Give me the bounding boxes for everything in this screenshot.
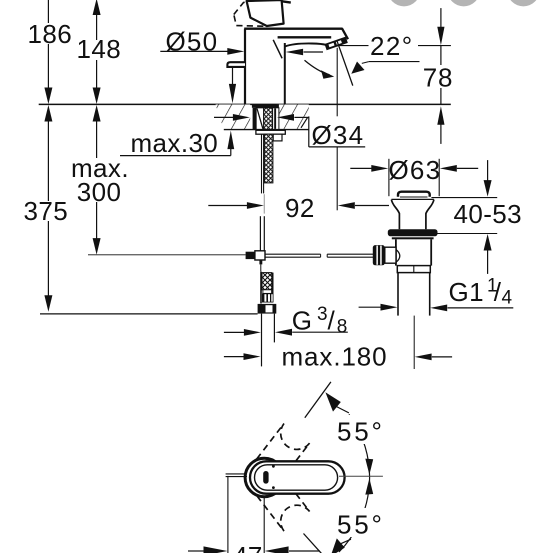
pull rod (plan) (226, 473, 247, 475)
countertop surface line (39, 103, 451, 105)
dim 186 line (47, 0, 49, 89)
svg-text:47: 47 (233, 541, 263, 553)
dim max30 leader (120, 155, 231, 157)
threaded rod below washer (264, 134, 273, 183)
drain flange and flare (391, 198, 434, 200)
dim 375 label (22, 201, 68, 221)
clamp wedge box (256, 108, 264, 130)
spout underside curve (285, 43, 326, 46)
label 55 upper (336, 415, 385, 444)
svg-text:92: 92 (285, 193, 315, 223)
spout inner slant line (273, 40, 282, 59)
svg-text:3: 3 (317, 304, 328, 325)
dim 22 aerator line (338, 45, 369, 47)
dim 92 line (208, 205, 247, 207)
drain centerline (413, 316, 415, 369)
dim 47 line (188, 550, 204, 552)
dim 22 leader (369, 61, 420, 63)
dim 78 line lower (437, 106, 444, 125)
radius ray upper (305, 382, 331, 418)
countertop underside line (224, 129, 309, 131)
dim max180 line right (415, 354, 432, 361)
dim max180 line left (224, 356, 246, 358)
centerline (plan) (339, 475, 383, 477)
lever handle (solid) (247, 0, 284, 26)
svg-text:Ø63: Ø63 (389, 155, 442, 185)
handle rotated -55 (dashed) (250, 468, 309, 532)
svg-text:max.180: max.180 (282, 342, 388, 372)
svg-text:4: 4 (502, 287, 513, 308)
shank right strip (273, 108, 279, 130)
aerator (tilted) (324, 37, 347, 51)
mounting washer (256, 130, 285, 134)
angle reference vertical (spout axis) (336, 48, 338, 117)
dim Ø63 line (350, 167, 377, 169)
arc center ticks (365, 459, 373, 475)
G3/8 nut (258, 304, 277, 314)
flow line with left arrow (304, 51, 324, 53)
handle rotated +55 (dashed) (250, 424, 309, 488)
hose end tube (261, 314, 263, 367)
carousel dot 1 (388, 0, 420, 6)
hose right bar (272, 273, 274, 303)
supply tube lower segment (259, 216, 261, 250)
mounting nut tab (273, 134, 282, 141)
dim 148 label (75, 40, 120, 60)
svg-text:Ø34: Ø34 (312, 120, 365, 150)
handle slot (black) (263, 471, 268, 484)
svg-text:300: 300 (77, 177, 122, 207)
threaded shank (cross-hatched) (264, 108, 273, 130)
pull-rod down arrow (229, 84, 236, 104)
faucet body top edge (244, 28, 342, 30)
handle outline (plan) (250, 461, 345, 493)
dim Ø50 leader (160, 50, 228, 52)
hose white band (263, 290, 272, 294)
supply tube (261, 134, 263, 193)
spout right slant (342, 28, 348, 39)
dim Ø34 box (308, 116, 310, 146)
dim max300 label (70, 158, 132, 202)
dim 47 ext lines (227, 476, 229, 553)
dim 186 label (26, 23, 73, 44)
faucet right wall (284, 43, 286, 104)
svg-text:375: 375 (24, 196, 69, 226)
dim G1-1/4 line (359, 306, 381, 308)
svg-text:G1: G1 (449, 277, 484, 307)
knob connector (385, 247, 396, 263)
dim 78 line (440, 46, 442, 105)
dim max300 line (93, 105, 101, 122)
handle dots (272, 465, 275, 468)
svg-text:40-53: 40-53 (454, 199, 523, 229)
55 deg dimension arc (339, 414, 370, 552)
dim 40-53 top (487, 160, 489, 180)
Ø63 extension lines (388, 159, 390, 196)
drain plug cap (398, 192, 430, 197)
stream angle slant line (337, 40, 353, 85)
svg-text:max.30: max.30 (131, 128, 219, 158)
carousel dot 3 (507, 0, 539, 6)
svg-text:Ø50: Ø50 (166, 27, 219, 57)
hose braid (cross-hatched) (262, 273, 272, 290)
linkage block (black) (246, 252, 255, 259)
extra hatch stub (301, 117, 308, 127)
svg-text:148: 148 (77, 34, 122, 64)
base gasket (252, 104, 279, 107)
linkage stem (259, 260, 262, 264)
rod level reference line (88, 254, 246, 256)
pop-up rod (horizontal) (265, 253, 321, 255)
drain coupling (397, 266, 430, 273)
radius ray lower (304, 534, 322, 553)
hose crimp (striped) (262, 293, 273, 302)
handle inner line (plan) (255, 465, 338, 490)
arc arrowhead lower (331, 538, 345, 553)
label 55 lower (336, 508, 385, 537)
lever handle (dashed open position) (234, 0, 277, 26)
countertop hatching (215, 104, 251, 129)
dim 78 label (422, 65, 457, 88)
drain knob (knurled) (373, 245, 385, 265)
dim 375 line (44, 105, 52, 122)
svg-text:/: / (328, 306, 336, 336)
hose left edge (260, 272, 262, 304)
svg-text:G: G (292, 306, 312, 336)
svg-text:186: 186 (28, 19, 73, 49)
flow swing arc (305, 60, 330, 75)
dim 78 line upper (440, 8, 442, 28)
dim G3/8 line (224, 331, 247, 333)
ref line hose-end (375) (40, 313, 258, 315)
svg-text:8: 8 (337, 316, 348, 337)
dim 148 line (93, 0, 101, 15)
linkage guide square (255, 251, 265, 260)
drain tailpipe (397, 273, 399, 316)
drain gasket (black ring) (388, 229, 438, 236)
shank left wall bar (253, 108, 257, 130)
carousel dot 2 (448, 0, 480, 6)
arc arrowhead upper (325, 392, 340, 411)
dim max180 label (280, 348, 389, 367)
dim Ø34 arrows (214, 116, 233, 118)
drain washer line (392, 237, 434, 239)
svg-text:78: 78 (423, 62, 454, 92)
dim 40-53 bottom (434, 233, 497, 235)
spout front top edge (278, 36, 332, 38)
drain body (395, 239, 397, 265)
svg-text:55°: 55° (337, 510, 385, 540)
svg-text:55°: 55° (337, 417, 385, 447)
tube gap extension line (263, 194, 265, 213)
svg-text:22°: 22° (370, 31, 414, 61)
pull-rod stem line (232, 68, 234, 85)
faucet left wall (244, 29, 246, 104)
pivot ring (plan) (245, 458, 283, 496)
pull-rod knob (227, 62, 245, 67)
lever top-right cut mark (281, 1, 291, 2)
